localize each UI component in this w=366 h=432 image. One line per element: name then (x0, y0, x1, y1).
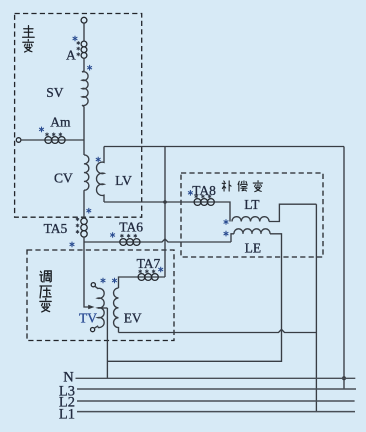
svg-text:Am: Am (50, 115, 71, 130)
asterisk above SV (87, 65, 92, 71)
CT Am small asterisks (45, 133, 62, 137)
svg-text:L1: L1 (59, 406, 75, 422)
bus N (76, 377, 356, 379)
compensation transformer dashed box 补偿变 (181, 173, 323, 257)
svg-text:SV: SV (46, 85, 64, 100)
label 补偿变 (hand-drawn hanzi) (222, 181, 231, 191)
TA7 big asterisk (158, 267, 163, 273)
main transformer dashed box 主变 (15, 14, 142, 218)
solid box top edge (LV top wire) (104, 146, 344, 148)
LV bottom wire through TA8 to LT (104, 202, 230, 222)
TV top terminal (91, 283, 95, 287)
svg-text:TA7: TA7 (137, 256, 161, 271)
label 主变 (hand-drawn hanzi) (23, 26, 35, 38)
TA6 wire from TA5 vertical to LE (hop over mid vertical) (84, 239, 231, 242)
TV/EV polarity asterisks (101, 278, 106, 284)
TV bottom terminal (91, 328, 95, 332)
CT A small polarity asterisks (77, 41, 80, 56)
LE asterisk (224, 231, 229, 237)
bus L2 (77, 400, 355, 402)
right vertical wire to bus (343, 147, 345, 390)
TV mid tap wire to N vertical (98, 307, 107, 309)
CT TA5 small asterisks (76, 217, 79, 233)
junction dot right vertical x N bus (342, 376, 346, 380)
LV winding on box left edge (97, 147, 104, 203)
svg-text:TA5: TA5 (44, 221, 68, 236)
mid vertical wire (LV top net down to TA7) (164, 147, 166, 278)
CT TA6 small asterisks (120, 234, 137, 238)
wire terminal to CT Am and to main vertical (21, 139, 84, 141)
svg-text:TA8: TA8 (192, 183, 216, 198)
TV bottom terminal lead (94, 326, 98, 329)
CT TA5 (3 circles vertical) (81, 218, 87, 224)
CT Am (3 circles) (45, 137, 52, 144)
LE right wire down, across to TV tap vertical (107, 234, 281, 361)
CT TA8 small asterisks (195, 195, 212, 199)
left terminal (Am branch) (16, 138, 21, 143)
asterisk above TA5 (86, 208, 91, 214)
series winding SV (82, 58, 88, 106)
wire TA5 down to regulator tap arrow (84, 237, 90, 307)
CT A big asterisk (73, 36, 78, 42)
wire SV to junction (83, 106, 85, 155)
svg-text:EV: EV (124, 311, 142, 326)
LT asterisk (224, 219, 229, 225)
TA6 big asterisk (110, 232, 115, 238)
CT TA7 wire (119, 277, 166, 288)
CT TA7 small asterisks (139, 270, 156, 274)
TV regulating winding (98, 288, 104, 327)
svg-text:TA6: TA6 (119, 220, 143, 235)
TV top terminal lead (95, 286, 98, 289)
excitation winding EV (114, 288, 119, 333)
svg-text:TV: TV (79, 311, 97, 326)
LT/EV vertical down to L1 (315, 204, 317, 411)
svg-text:A: A (66, 48, 76, 63)
EV bottom wire to LT/EV vertical (hop over LE vertical) (119, 329, 317, 332)
CT A (3 circles) (81, 41, 87, 47)
TA8 big asterisk (188, 190, 193, 196)
CT TA6 (3 circles) (120, 239, 127, 246)
compensation winding LE (234, 229, 270, 234)
tap arrow head (88, 305, 94, 310)
regulating transformer dashed box 调压变 (27, 250, 174, 341)
bus L3 (77, 388, 356, 390)
CT TA7 (3 circles) (138, 274, 145, 281)
svg-text:LT: LT (244, 197, 260, 212)
CT Am big asterisk (39, 127, 44, 133)
top terminal (81, 17, 87, 23)
junction dot LV bottom wire x mid vertical (163, 200, 167, 204)
asterisk below TA5 (70, 242, 75, 248)
LE left jog down to TA6 wire (231, 234, 234, 242)
svg-text:CV: CV (54, 170, 73, 185)
common winding CV (84, 155, 89, 190)
wire top terminal to CT A (83, 23, 85, 41)
CT TA8 (3 circles) (194, 199, 201, 206)
wire CV to TA5 (83, 190, 85, 218)
N vertical wire (TV tap down to N bus) (106, 308, 108, 378)
LV asterisk (96, 157, 101, 163)
svg-text:LV: LV (115, 173, 132, 188)
compensation winding LT (232, 217, 269, 222)
bus L1 (77, 411, 355, 413)
svg-text:LE: LE (245, 240, 262, 255)
LT right wire jog up and to right vertical (269, 204, 316, 221)
label 调压变 (hand-drawn hanzi) (40, 271, 51, 282)
